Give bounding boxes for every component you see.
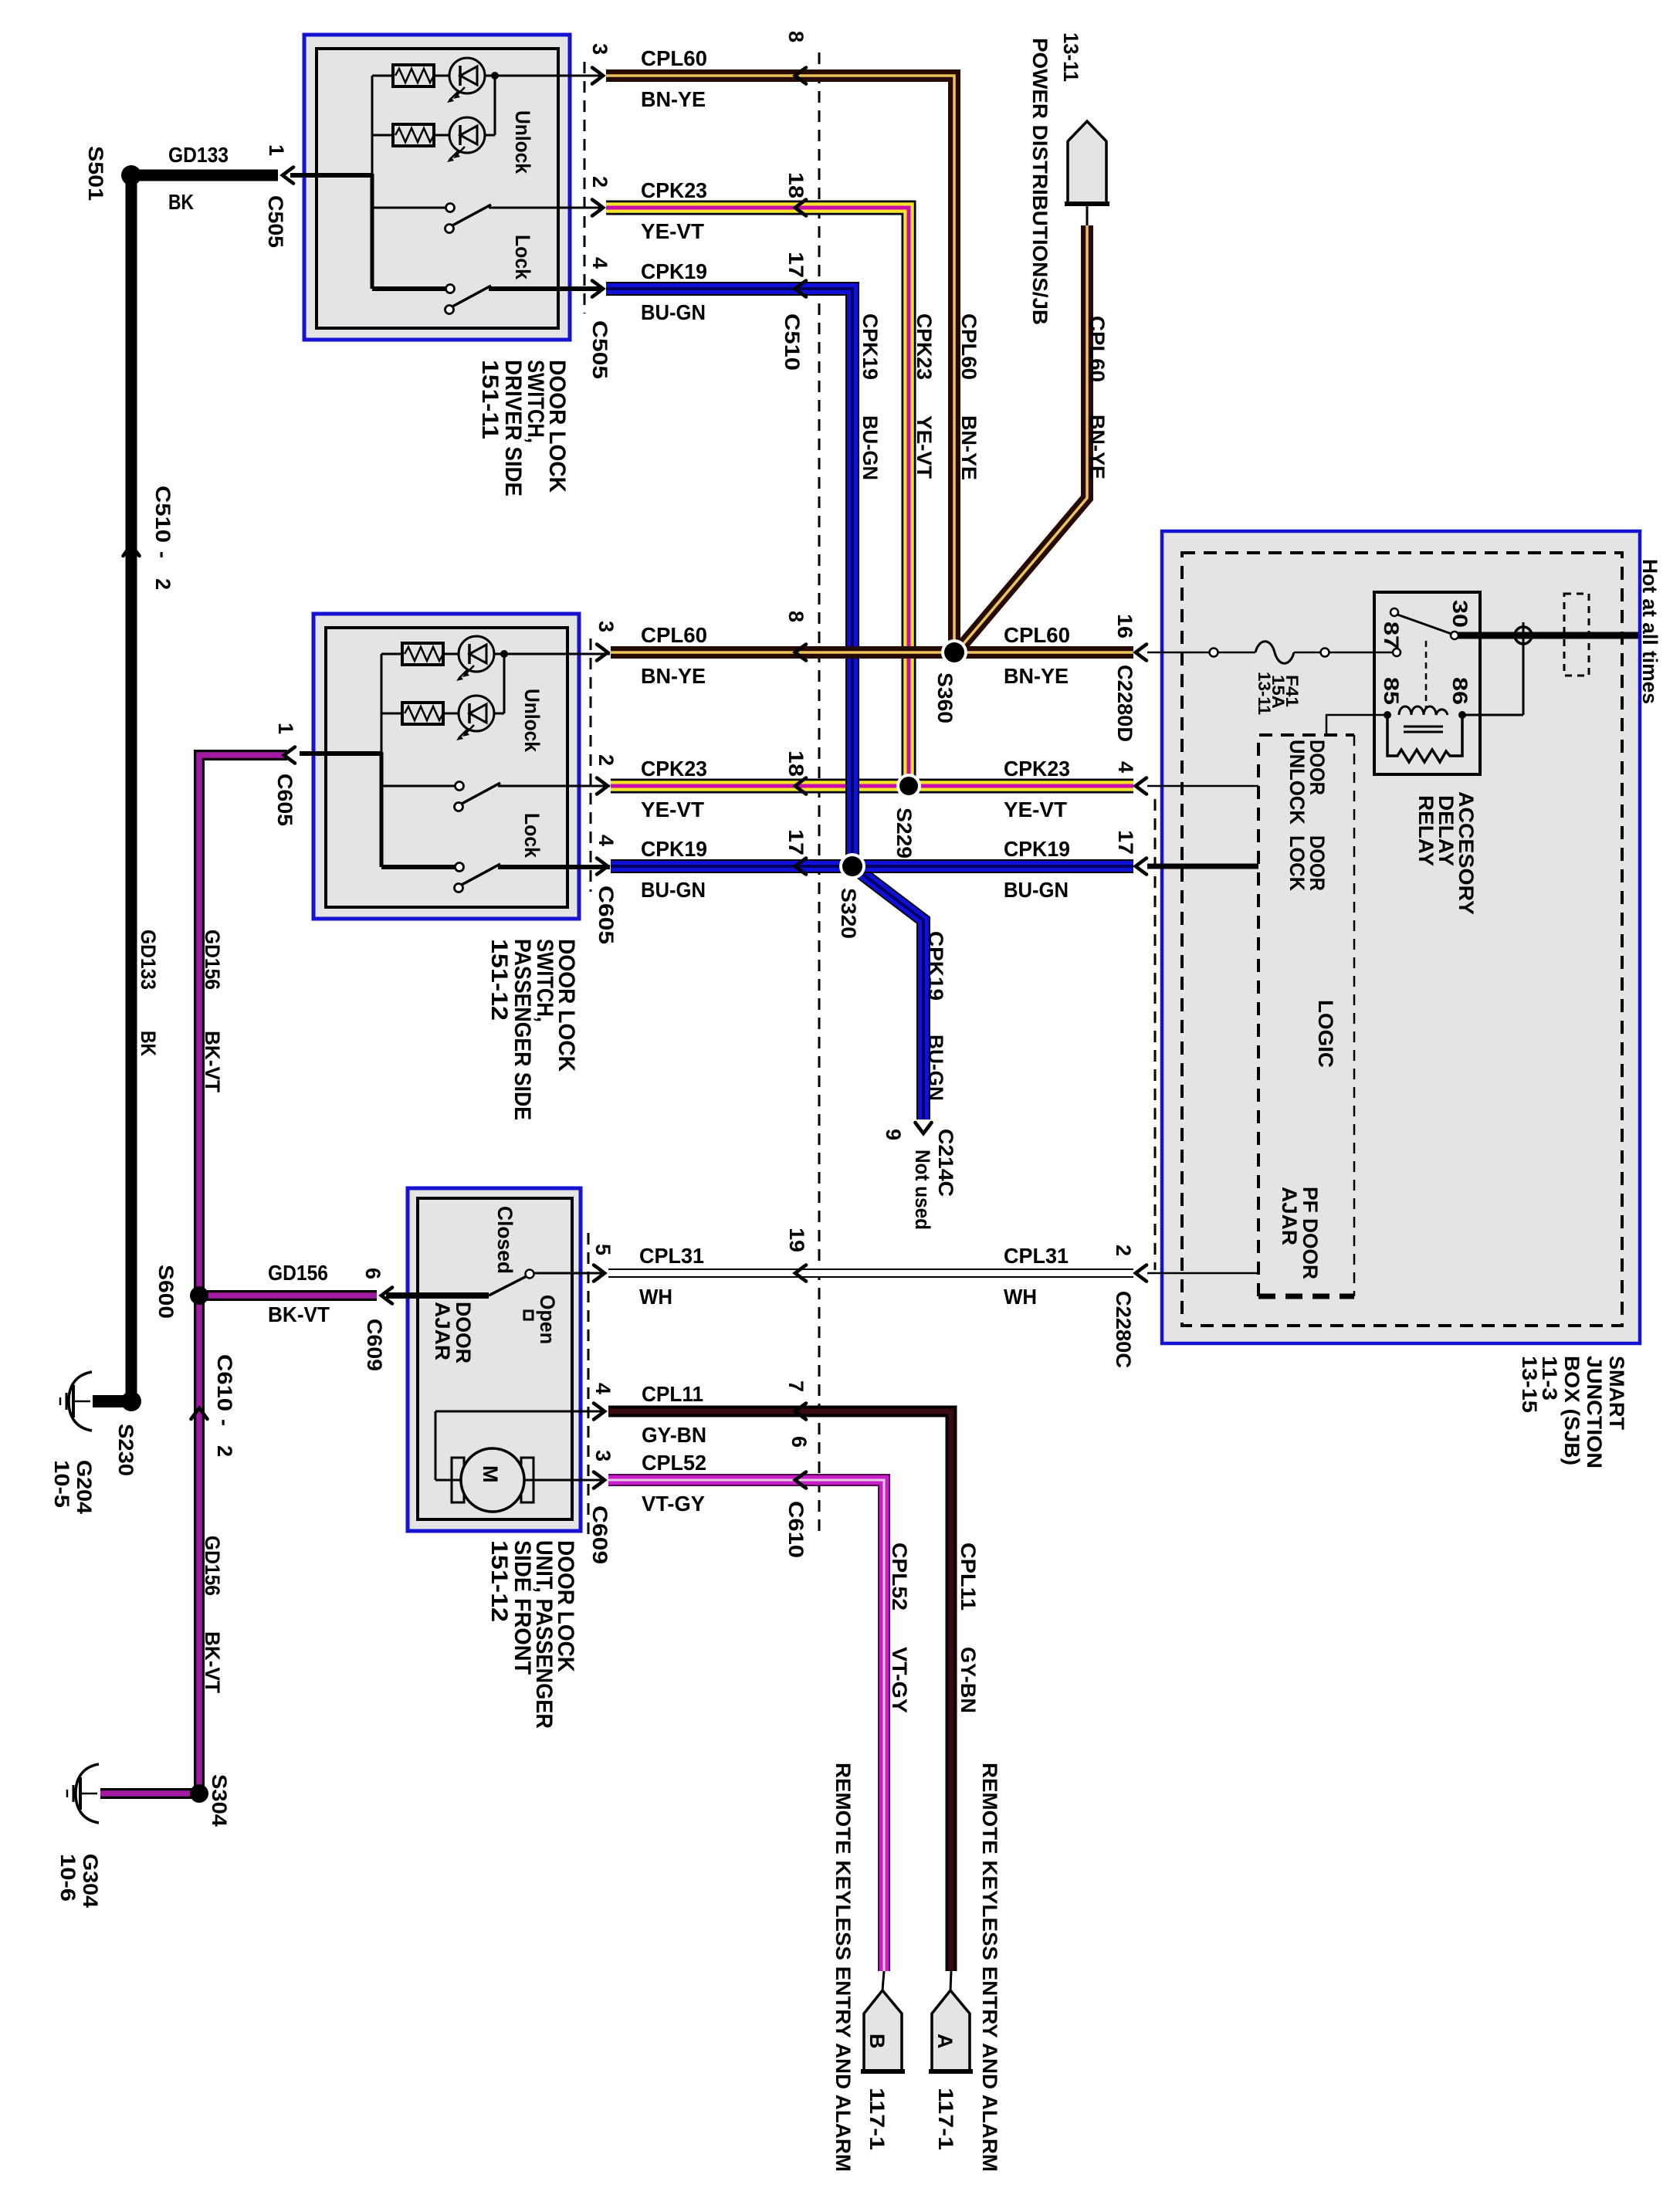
- svg-text:C610: C610: [784, 1501, 808, 1558]
- svg-text:BK-VT: BK-VT: [201, 1031, 224, 1092]
- svg-text:GY-BN: GY-BN: [957, 1647, 980, 1713]
- svg-text:VT-GY: VT-GY: [642, 1492, 705, 1516]
- svg-text:Hot at all times: Hot at all times: [1638, 559, 1661, 704]
- svg-text:CPK23: CPK23: [1004, 757, 1070, 781]
- svg-text:18: 18: [784, 172, 808, 198]
- svg-text:8: 8: [784, 31, 808, 42]
- svg-text:3: 3: [588, 43, 611, 55]
- svg-text:18: 18: [784, 750, 808, 777]
- svg-text:CPL31: CPL31: [639, 1244, 704, 1268]
- svg-text:LOCK: LOCK: [1285, 835, 1309, 891]
- svg-text:S229: S229: [892, 808, 916, 859]
- svg-text:C605: C605: [594, 886, 618, 944]
- svg-text:CPK19: CPK19: [859, 313, 882, 380]
- svg-text:10-5: 10-5: [50, 1460, 73, 1508]
- svg-text:BN-YE: BN-YE: [957, 415, 981, 480]
- svg-text:CPK19: CPK19: [924, 931, 947, 1001]
- svg-text:6: 6: [787, 1436, 811, 1448]
- svg-text:BOX (SJB): BOX (SJB): [1560, 1356, 1583, 1465]
- svg-text:BN-YE: BN-YE: [1086, 415, 1109, 479]
- svg-text:BU-GN: BU-GN: [924, 1035, 947, 1101]
- svg-text:CPL11: CPL11: [957, 1543, 980, 1611]
- svg-text:CPL52: CPL52: [642, 1451, 706, 1475]
- svg-text:1: 1: [265, 144, 288, 156]
- svg-text:C605: C605: [273, 774, 296, 826]
- svg-text:CPL60: CPL60: [641, 46, 707, 70]
- svg-text:2: 2: [588, 176, 611, 188]
- svg-text:C610: C610: [213, 1354, 236, 1411]
- svg-text:19: 19: [785, 1228, 808, 1252]
- svg-text:17: 17: [784, 829, 808, 855]
- svg-text:Open: Open: [536, 1295, 559, 1344]
- svg-text:Not used: Not used: [911, 1150, 934, 1230]
- svg-text:3: 3: [594, 621, 618, 632]
- svg-text:SIDE FRONT: SIDE FRONT: [510, 1540, 535, 1675]
- svg-text:17: 17: [1114, 830, 1137, 855]
- svg-text:WH: WH: [639, 1285, 672, 1309]
- svg-text:151-12: 151-12: [486, 1540, 512, 1622]
- svg-text:CPL31: CPL31: [1004, 1244, 1069, 1268]
- svg-text:87: 87: [1380, 622, 1403, 649]
- svg-text:86: 86: [1448, 677, 1472, 705]
- svg-text:1: 1: [274, 723, 297, 734]
- svg-text:151-11: 151-11: [477, 360, 503, 439]
- svg-text:BK-VT: BK-VT: [268, 1302, 330, 1326]
- svg-text:S501: S501: [84, 146, 107, 201]
- svg-text:YE-VT: YE-VT: [913, 415, 936, 479]
- svg-text:85: 85: [1380, 677, 1403, 705]
- svg-text:13-15: 13-15: [1518, 1356, 1541, 1413]
- svg-text:C505: C505: [264, 195, 287, 248]
- svg-text:BN-YE: BN-YE: [1004, 664, 1069, 688]
- svg-text:Closed: Closed: [493, 1206, 517, 1274]
- svg-text:RELAY: RELAY: [1414, 795, 1438, 866]
- svg-text:GD133: GD133: [168, 143, 229, 167]
- svg-text:Unlock: Unlock: [520, 689, 544, 753]
- svg-text:CPK23: CPK23: [641, 178, 707, 202]
- svg-text:CPK19: CPK19: [641, 259, 707, 283]
- svg-text:CPL60: CPL60: [1004, 623, 1070, 647]
- svg-text:DOOR: DOOR: [452, 1302, 475, 1363]
- svg-text:CPK19: CPK19: [641, 837, 707, 861]
- svg-text:YE-VT: YE-VT: [641, 219, 704, 243]
- svg-text:BK: BK: [137, 1031, 160, 1056]
- svg-text:4: 4: [591, 1383, 615, 1394]
- svg-text:BK-VT: BK-VT: [201, 1631, 224, 1693]
- svg-text:2: 2: [213, 1445, 236, 1457]
- svg-text:G304: G304: [79, 1854, 102, 1908]
- svg-text:G204: G204: [73, 1460, 96, 1514]
- svg-text:POWER DISTRIBUTIONS/JB: POWER DISTRIBUTIONS/JB: [1028, 38, 1052, 325]
- svg-text:CPL60: CPL60: [641, 623, 707, 647]
- svg-text:B: B: [865, 2034, 889, 2049]
- svg-text:2: 2: [1112, 1245, 1135, 1256]
- svg-text:2: 2: [594, 754, 618, 766]
- svg-text:M: M: [479, 1465, 502, 1483]
- svg-text:CPL52: CPL52: [888, 1543, 911, 1611]
- svg-text:16: 16: [1113, 614, 1136, 638]
- svg-text:CPL60: CPL60: [1086, 316, 1109, 382]
- svg-text:UNLOCK: UNLOCK: [1285, 740, 1309, 825]
- svg-text:DRIVER SIDE: DRIVER SIDE: [500, 360, 526, 496]
- svg-text:-: -: [151, 551, 174, 558]
- svg-text:S230: S230: [114, 1424, 137, 1476]
- svg-text:WH: WH: [1004, 1285, 1037, 1309]
- svg-text:S304: S304: [208, 1774, 231, 1827]
- svg-text:Unlock: Unlock: [511, 110, 534, 174]
- svg-text:AJAR: AJAR: [1278, 1187, 1301, 1245]
- svg-text:A: A: [933, 2034, 957, 2049]
- svg-text:-: -: [213, 1419, 236, 1426]
- svg-text:117-1: 117-1: [865, 2088, 889, 2150]
- svg-text:2: 2: [151, 578, 174, 590]
- svg-text:CPK23: CPK23: [913, 313, 936, 380]
- svg-text:GD156: GD156: [201, 1536, 224, 1596]
- svg-text:GD156: GD156: [268, 1261, 328, 1285]
- svg-text:CPL60: CPL60: [957, 313, 981, 380]
- svg-text:13-11: 13-11: [1059, 32, 1082, 82]
- svg-text:BN-YE: BN-YE: [641, 87, 706, 111]
- svg-text:GD133: GD133: [137, 930, 160, 990]
- svg-text:LOGIC: LOGIC: [1314, 1000, 1337, 1068]
- svg-text:9: 9: [882, 1129, 905, 1140]
- svg-text:BU-GN: BU-GN: [641, 878, 706, 902]
- svg-text:C609: C609: [588, 1506, 611, 1564]
- svg-text:PASSENGER SIDE: PASSENGER SIDE: [510, 939, 535, 1120]
- svg-text:REMOTE KEYLESS ENTRY AND ALARM: REMOTE KEYLESS ENTRY AND ALARM: [978, 1763, 1001, 2172]
- svg-text:AJAR: AJAR: [431, 1302, 454, 1360]
- svg-text:10-6: 10-6: [56, 1854, 80, 1902]
- svg-text:30: 30: [1448, 600, 1472, 628]
- svg-text:SMART: SMART: [1605, 1356, 1628, 1430]
- svg-text:Lock: Lock: [511, 235, 534, 280]
- svg-text:C2280D: C2280D: [1113, 665, 1136, 742]
- svg-text:5: 5: [591, 1244, 615, 1255]
- svg-text:117-1: 117-1: [934, 2088, 957, 2150]
- svg-text:S600: S600: [154, 1265, 178, 1319]
- svg-text:C2280C: C2280C: [1112, 1291, 1135, 1368]
- svg-text:151-12: 151-12: [486, 939, 512, 1021]
- svg-text:REMOTE KEYLESS ENTRY AND ALARM: REMOTE KEYLESS ENTRY AND ALARM: [832, 1763, 855, 2172]
- svg-text:C505: C505: [588, 320, 611, 379]
- svg-text:BU-GN: BU-GN: [641, 300, 706, 324]
- svg-text:PF DOOR: PF DOOR: [1299, 1187, 1322, 1279]
- svg-text:Lock: Lock: [520, 813, 544, 859]
- svg-text:17: 17: [784, 252, 808, 278]
- svg-text:BU-GN: BU-GN: [859, 415, 882, 480]
- svg-text:GY-BN: GY-BN: [642, 1423, 706, 1447]
- svg-text:S320: S320: [837, 888, 860, 939]
- svg-text:C510: C510: [781, 313, 804, 371]
- svg-text:CPK19: CPK19: [1004, 837, 1070, 861]
- svg-text:8: 8: [784, 611, 808, 622]
- svg-text:CPL11: CPL11: [642, 1382, 703, 1406]
- svg-text:C214C: C214C: [934, 1129, 957, 1197]
- svg-text:BN-YE: BN-YE: [641, 664, 706, 688]
- svg-text:JUNCTION: JUNCTION: [1583, 1356, 1606, 1468]
- svg-text:YE-VT: YE-VT: [1004, 798, 1067, 821]
- svg-text:6: 6: [361, 1268, 384, 1279]
- svg-text:BK: BK: [168, 190, 194, 214]
- svg-text:4: 4: [588, 257, 611, 269]
- svg-text:VT-GY: VT-GY: [888, 1647, 911, 1713]
- svg-text:4: 4: [1114, 761, 1137, 773]
- svg-text:13-11: 13-11: [1255, 672, 1274, 715]
- svg-text:S360: S360: [933, 672, 957, 723]
- svg-text:C609: C609: [363, 1319, 386, 1371]
- svg-text:GD156: GD156: [201, 930, 224, 990]
- svg-text:C510: C510: [151, 486, 174, 543]
- svg-text:BU-GN: BU-GN: [1004, 878, 1069, 902]
- svg-text:4: 4: [594, 835, 618, 846]
- svg-text:3: 3: [591, 1450, 615, 1462]
- svg-text:CPK23: CPK23: [641, 757, 707, 781]
- svg-text:YE-VT: YE-VT: [641, 798, 704, 821]
- svg-text:7: 7: [784, 1380, 808, 1392]
